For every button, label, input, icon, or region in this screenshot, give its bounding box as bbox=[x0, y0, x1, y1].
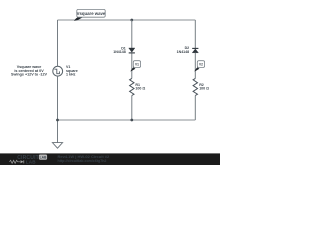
svg-text:100 Ω: 100 Ω bbox=[135, 86, 145, 90]
svg-text:1N4148: 1N4148 bbox=[113, 50, 126, 54]
svg-text:1 kHz: 1 kHz bbox=[66, 72, 76, 76]
label D2 1N4148 bbox=[177, 46, 190, 54]
label D1 1N4148 bbox=[113, 46, 126, 54]
wire right vertical upper bbox=[194, 20, 196, 48]
svg-text:Swings +12V to -12V: Swings +12V to -12V bbox=[11, 73, 48, 77]
label R2 100 ohm bbox=[199, 83, 209, 90]
wire top rail bbox=[58, 19, 196, 21]
svg-text:LAB: LAB bbox=[40, 156, 47, 160]
svg-text:V2: V2 bbox=[199, 62, 203, 66]
footer bar bbox=[0, 153, 220, 165]
wire middle between D1 and R1 bbox=[131, 53, 133, 78]
resistor R2 bbox=[193, 78, 197, 95]
svg-text:LAB: LAB bbox=[26, 160, 36, 165]
wire middle upper bbox=[131, 20, 133, 48]
probe flag V2 bbox=[194, 61, 204, 72]
node junction top middle bbox=[130, 19, 133, 22]
wire middle lower bbox=[131, 96, 133, 121]
diode D2 bbox=[192, 48, 198, 52]
net flag Vsquare wave bbox=[74, 9, 106, 21]
svg-text:Vsquare wave: Vsquare wave bbox=[77, 11, 106, 16]
footer logo CircuitLab bbox=[10, 155, 48, 165]
annotation text left bbox=[11, 65, 48, 77]
footer revision text bbox=[58, 154, 110, 159]
diode D1 bbox=[129, 48, 135, 53]
source V1 square wave bbox=[53, 66, 63, 76]
svg-text:http://circuitlab.com/c6tg7h2: http://circuitlab.com/c6tg7h2 bbox=[58, 159, 107, 163]
wire left vertical lower bbox=[57, 76, 59, 120]
probe flag V1 bbox=[130, 61, 140, 72]
svg-text:100 Ω: 100 Ω bbox=[199, 86, 209, 90]
svg-text:1N4148: 1N4148 bbox=[177, 50, 190, 54]
wire right between D2 and R2 bbox=[194, 53, 196, 79]
wire left vertical upper bbox=[57, 20, 59, 66]
wire bottom rail bbox=[58, 119, 196, 121]
svg-text:V1: V1 bbox=[135, 62, 139, 66]
node junction bottom-left bbox=[56, 119, 59, 122]
node junction bottom middle bbox=[130, 119, 133, 122]
resistor R1 bbox=[130, 78, 134, 95]
footer url text bbox=[58, 159, 107, 163]
label R1 100 ohm bbox=[135, 83, 145, 90]
wire right vertical lower bbox=[194, 96, 196, 121]
label V1 square 1 kHz bbox=[66, 65, 78, 76]
ground bbox=[52, 120, 62, 148]
